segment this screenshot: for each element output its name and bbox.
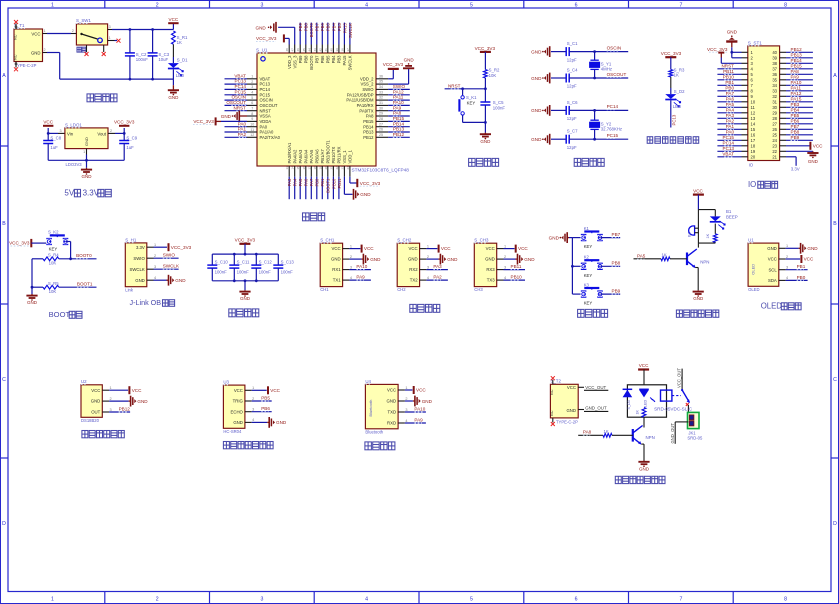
svg-text:OLED: OLED (748, 287, 759, 292)
svg-text:4: 4 (405, 419, 407, 423)
svg-text:PB10/TX: PB10/TX (331, 147, 336, 164)
svg-text:PA9: PA9 (791, 74, 800, 79)
svg-text:PB1/A7: PB1/A7 (320, 149, 325, 164)
svg-text:PB15: PB15 (393, 116, 405, 121)
svg-text:PA1/A0: PA1/A0 (260, 130, 275, 135)
svg-text:1K: 1K (674, 73, 679, 78)
svg-text:PA0: PA0 (260, 124, 268, 129)
svg-text:GND: GND (360, 192, 371, 197)
svg-text:1: 1 (83, 150, 85, 154)
svg-text:Vout: Vout (97, 132, 106, 137)
svg-text:GND: GND (767, 246, 777, 251)
svg-text:PB0: PB0 (725, 85, 734, 90)
svg-text:5: 5 (470, 2, 473, 8)
svg-text:PC13: PC13 (672, 114, 677, 125)
svg-text:13: 13 (285, 166, 289, 170)
svg-text:36: 36 (772, 72, 777, 77)
svg-text:Vin: Vin (67, 132, 74, 137)
svg-text:PB5: PB5 (261, 395, 270, 400)
svg-text:33: 33 (379, 90, 383, 94)
svg-text:K1: K1 (584, 226, 590, 231)
svg-text:43: 43 (313, 48, 317, 52)
svg-text:PA5/A3: PA5/A3 (298, 149, 303, 164)
svg-text:PB7: PB7 (314, 55, 319, 64)
svg-text:GND: GND (531, 108, 542, 113)
svg-text:PA4/A2: PA4/A2 (292, 149, 297, 164)
svg-text:10K: 10K (49, 289, 57, 294)
svg-text:PA4: PA4 (726, 107, 735, 112)
svg-text:38: 38 (772, 61, 777, 66)
svg-text:7: 7 (251, 107, 253, 111)
svg-text:PA8: PA8 (366, 114, 374, 119)
svg-text:PB1: PB1 (797, 264, 806, 269)
svg-text:B1: B1 (726, 209, 732, 214)
svg-text:PA11/USB/DM: PA11/USB/DM (346, 98, 374, 103)
svg-text:S_CH2: S_CH2 (397, 238, 412, 243)
svg-text:S_D1: S_D1 (177, 58, 188, 63)
svg-text:GND: GND (447, 257, 458, 262)
svg-text:18: 18 (751, 143, 756, 148)
svg-text:VCC: VCC (91, 388, 100, 393)
svg-text:S_LDO1: S_LDO1 (65, 122, 82, 127)
svg-text:S_D2: S_D2 (674, 89, 685, 94)
svg-text:PA9/TX: PA9/TX (359, 108, 373, 113)
svg-text:3: 3 (109, 25, 111, 29)
svg-text:VCC: VCC (486, 246, 495, 251)
svg-text:SWCLK: SWCLK (163, 264, 180, 269)
svg-text:7: 7 (679, 597, 682, 603)
svg-text:1K: 1K (662, 253, 667, 258)
svg-text:PB3: PB3 (337, 55, 342, 64)
svg-text:PA10: PA10 (393, 100, 404, 105)
svg-text:41: 41 (324, 48, 328, 52)
svg-text:PB3: PB3 (337, 23, 342, 32)
svg-text:4: 4 (427, 276, 429, 280)
svg-text:VCC: VCC (768, 257, 777, 262)
svg-text:S_K2: S_K2 (48, 230, 59, 235)
svg-text:100nF: 100nF (215, 269, 228, 274)
svg-text:SWIO: SWIO (362, 87, 374, 92)
svg-text:3: 3 (350, 265, 352, 269)
svg-text:SWIO: SWIO (133, 256, 145, 261)
svg-text:3: 3 (251, 85, 253, 89)
svg-text:GND: GND (91, 399, 101, 404)
svg-text:PA10/RX: PA10/RX (357, 103, 374, 108)
svg-text:BOOT1: BOOT1 (77, 282, 93, 287)
svg-text:VCC: VCC (332, 246, 341, 251)
svg-text:GND: GND (485, 257, 495, 262)
svg-text:29: 29 (772, 110, 777, 115)
svg-text:C: C (2, 377, 6, 383)
svg-text:1K: 1K (604, 429, 609, 434)
svg-text:PB9: PB9 (612, 289, 621, 294)
svg-text:1: 1 (251, 75, 253, 79)
svg-text:1uF: 1uF (50, 145, 58, 150)
svg-text:S_H1: S_H1 (125, 237, 137, 242)
svg-text:VBAT: VBAT (722, 151, 734, 156)
svg-text:B: B (833, 221, 837, 227)
svg-text:Bluetooth: Bluetooth (365, 429, 383, 434)
svg-text:RX3: RX3 (486, 267, 495, 272)
svg-text:6: 6 (251, 101, 253, 105)
svg-text:PC14: PC14 (723, 140, 735, 145)
svg-text:PB1: PB1 (725, 80, 734, 85)
svg-text:PB10: PB10 (331, 178, 336, 189)
svg-text:PA15: PA15 (342, 23, 347, 34)
svg-text:VCC_3V3: VCC_3V3 (360, 181, 381, 186)
svg-text:28: 28 (772, 116, 777, 121)
svg-text:SWCLK: SWCLK (348, 23, 353, 38)
svg-text:16: 16 (751, 132, 756, 137)
svg-text:2: 2 (156, 597, 159, 603)
svg-text:PA6: PA6 (726, 96, 735, 101)
svg-text:GND: GND (240, 296, 251, 301)
svg-text:GND: GND (422, 399, 433, 404)
svg-text:3.3V: 3.3V (83, 189, 100, 198)
svg-text:K2: K2 (584, 255, 590, 260)
svg-text:PA7: PA7 (726, 91, 735, 96)
svg-text:PA12: PA12 (393, 89, 404, 94)
svg-text:PB11: PB11 (511, 264, 522, 269)
svg-text:PC13: PC13 (260, 82, 271, 87)
svg-text:GND: GND (276, 420, 287, 425)
svg-text:TX2: TX2 (410, 278, 418, 283)
svg-text:KEY: KEY (584, 244, 593, 249)
svg-text:100nF: 100nF (493, 105, 506, 110)
svg-text:VBAT: VBAT (234, 73, 246, 78)
svg-text:GND: GND (480, 139, 491, 144)
svg-text:6: 6 (575, 2, 578, 8)
svg-text:PA10: PA10 (414, 406, 425, 411)
svg-text:OLED: OLED (751, 264, 756, 275)
svg-text:OSCOUT: OSCOUT (226, 100, 246, 105)
svg-text:1: 1 (427, 244, 429, 248)
svg-text:PA2: PA2 (726, 118, 735, 123)
svg-text:RX2: RX2 (409, 267, 418, 272)
svg-text:VSSA: VSSA (260, 114, 271, 119)
svg-text:VSS_1: VSS_1 (342, 150, 347, 164)
svg-text:NRST: NRST (721, 63, 734, 68)
svg-text:GND: GND (404, 58, 415, 63)
svg-text:27: 27 (379, 122, 383, 126)
svg-text:22: 22 (772, 149, 777, 154)
svg-text:S_C4: S_C4 (567, 67, 578, 72)
svg-text:PA10: PA10 (791, 80, 802, 85)
svg-text:BOOT0: BOOT0 (309, 23, 314, 38)
svg-text:GND: GND (549, 235, 560, 240)
svg-text:29: 29 (379, 112, 383, 116)
svg-text:PB9: PB9 (298, 23, 303, 32)
svg-text:12: 12 (751, 110, 756, 115)
svg-text:GND: GND (693, 296, 704, 301)
svg-text:PB5: PB5 (326, 23, 331, 32)
svg-text:18: 18 (313, 166, 317, 170)
svg-text:S_C6: S_C6 (567, 100, 578, 105)
svg-text:7: 7 (679, 2, 682, 8)
svg-text:17: 17 (751, 138, 756, 143)
svg-text:14: 14 (291, 166, 295, 170)
svg-text:PB11: PB11 (723, 69, 734, 74)
svg-text:8: 8 (784, 597, 787, 603)
svg-text:20: 20 (324, 166, 328, 170)
svg-text:OLED: OLED (761, 302, 783, 311)
svg-text:VCC: VCC (813, 143, 823, 148)
svg-text:PA0: PA0 (726, 129, 735, 134)
svg-text:44: 44 (307, 48, 311, 52)
svg-text:VCC: VCC (518, 246, 528, 251)
svg-text:GND: GND (531, 76, 542, 81)
svg-text:16: 16 (302, 166, 306, 170)
svg-text:PB10: PB10 (511, 275, 523, 280)
svg-text:PA9: PA9 (356, 275, 365, 280)
svg-text:S_ST1: S_ST1 (748, 40, 762, 45)
svg-text:4MHz: 4MHz (601, 67, 612, 72)
svg-text:46: 46 (296, 48, 300, 52)
svg-text:21: 21 (772, 154, 777, 159)
svg-text:PA6/A4: PA6/A4 (303, 149, 308, 164)
svg-text:S_C8: S_C8 (50, 135, 61, 140)
svg-text:4: 4 (154, 276, 156, 280)
svg-text:BOOT: BOOT (49, 310, 71, 319)
svg-text:PB12: PB12 (363, 135, 374, 140)
svg-text:PB5: PB5 (791, 113, 800, 118)
svg-text:5V: 5V (64, 189, 74, 198)
svg-text:11: 11 (250, 128, 254, 132)
svg-text:D: D (2, 521, 6, 527)
svg-text:PA6: PA6 (304, 178, 309, 186)
svg-text:S_C11: S_C11 (237, 260, 250, 265)
svg-text:K3: K3 (584, 283, 590, 288)
svg-text:PA8: PA8 (583, 430, 592, 435)
svg-text:2: 2 (72, 29, 74, 33)
svg-text:VCC: VCC (43, 120, 53, 125)
svg-text:NRST: NRST (233, 105, 246, 110)
svg-text:STM32F103C8T6_LQFP48: STM32F103C8T6_LQFP48 (352, 168, 410, 173)
svg-text:2: 2 (786, 255, 788, 259)
svg-text:PB15: PB15 (791, 63, 803, 68)
svg-text:VCC: VCC (169, 17, 179, 22)
svg-text:1uF: 1uF (126, 145, 134, 150)
svg-text:24: 24 (346, 166, 350, 170)
svg-text:VCC: VCC (270, 388, 280, 393)
svg-text:GND: GND (27, 300, 38, 305)
svg-text:NC: NC (550, 389, 554, 395)
svg-text:2: 2 (43, 48, 45, 52)
svg-text:TX3: TX3 (487, 278, 495, 283)
svg-text:32: 32 (772, 94, 777, 99)
svg-text:NRST: NRST (448, 83, 461, 88)
svg-text:4: 4 (252, 418, 254, 422)
svg-text:VCC: VCC (234, 388, 243, 393)
svg-text:2: 2 (110, 129, 112, 133)
svg-text:VCC_3V3: VCC_3V3 (475, 46, 496, 51)
svg-text:PB11/RX: PB11/RX (337, 146, 342, 163)
svg-text:PA15: PA15 (791, 96, 802, 101)
svg-text:1K: 1K (706, 233, 710, 238)
svg-text:12pF: 12pF (567, 116, 577, 121)
svg-text:PB4: PB4 (331, 23, 336, 32)
svg-text:2: 2 (427, 255, 429, 259)
svg-text:PC13: PC13 (723, 146, 735, 151)
svg-text:8: 8 (251, 112, 253, 116)
svg-text:3: 3 (786, 266, 788, 270)
svg-text:TYPE-C-2P: TYPE-C-2P (556, 419, 578, 424)
svg-text:12pF: 12pF (567, 145, 577, 150)
svg-text:KEY: KEY (584, 273, 593, 278)
svg-text:1: 1 (504, 244, 506, 248)
svg-text:PC14: PC14 (235, 84, 247, 89)
svg-text:VCC_3V3: VCC_3V3 (383, 62, 404, 67)
svg-text:39: 39 (335, 48, 339, 52)
svg-text:1: 1 (154, 243, 156, 247)
svg-text:VSS_3: VSS_3 (292, 55, 297, 69)
svg-text:30: 30 (379, 106, 383, 110)
svg-text:37: 37 (346, 48, 350, 52)
svg-text:TRIG: TRIG (233, 399, 244, 404)
svg-text:47: 47 (291, 48, 295, 52)
svg-text:26: 26 (772, 127, 777, 132)
svg-text:VDD_2: VDD_2 (360, 76, 374, 81)
svg-text:4: 4 (786, 276, 788, 280)
svg-text:37: 37 (772, 66, 777, 71)
svg-text:48: 48 (285, 48, 289, 52)
svg-text:2: 2 (504, 255, 506, 259)
svg-text:NPN: NPN (700, 260, 709, 265)
svg-text:10: 10 (250, 123, 254, 127)
svg-text:PC13: PC13 (235, 79, 247, 84)
svg-text:PA2: PA2 (433, 275, 442, 280)
svg-text:GND_OUT: GND_OUT (670, 423, 675, 444)
svg-text:VBAT: VBAT (260, 76, 271, 81)
svg-text:3: 3 (260, 597, 263, 603)
svg-text:PA3: PA3 (433, 264, 442, 269)
svg-text:3: 3 (260, 2, 263, 8)
svg-text:PB8: PB8 (304, 23, 309, 32)
svg-text:PC15: PC15 (235, 89, 247, 94)
svg-text:4: 4 (365, 597, 368, 603)
svg-text:1K: 1K (177, 40, 182, 45)
svg-text:15: 15 (751, 127, 756, 132)
svg-text:S_R4: S_R4 (48, 252, 59, 257)
svg-text:S_D3: S_D3 (627, 400, 631, 409)
svg-text:S_C9: S_C9 (126, 135, 137, 140)
svg-text:PA0: PA0 (238, 121, 247, 126)
svg-text:PB13: PB13 (791, 52, 803, 57)
svg-text:26: 26 (379, 128, 383, 132)
svg-text:Bluetooth: Bluetooth (368, 400, 373, 417)
svg-text:VDD_3: VDD_3 (287, 55, 292, 69)
svg-text:21: 21 (329, 166, 333, 170)
svg-text:SWIO: SWIO (163, 253, 176, 258)
svg-text:VCC: VCC (441, 246, 451, 251)
svg-text:VCC: VCC (693, 188, 703, 193)
svg-text:PB14: PB14 (791, 58, 803, 63)
svg-text:CH3: CH3 (474, 287, 483, 292)
svg-text:PB6: PB6 (261, 406, 270, 411)
svg-text:VCC_3V3: VCC_3V3 (707, 47, 728, 52)
svg-text:SWIO: SWIO (393, 84, 406, 89)
svg-text:PA5: PA5 (637, 254, 646, 259)
svg-text:SWCLK: SWCLK (348, 55, 353, 70)
svg-text:27: 27 (772, 121, 777, 126)
svg-text:3: 3 (252, 408, 254, 412)
svg-text:12: 12 (250, 133, 254, 137)
svg-text:VCC: VCC (567, 385, 576, 390)
svg-text:35: 35 (772, 77, 777, 82)
svg-text:HC-SR04: HC-SR04 (223, 429, 242, 434)
svg-text:VCC: VCC (416, 388, 426, 393)
svg-text:GND: GND (135, 278, 145, 283)
svg-text:A: A (2, 73, 6, 79)
svg-text:VCC: VCC (132, 388, 142, 393)
svg-text:2: 2 (251, 80, 253, 84)
svg-text:U2: U2 (81, 379, 87, 384)
svg-text:12pF: 12pF (567, 84, 577, 89)
svg-text:S_U1: S_U1 (256, 48, 268, 53)
svg-text:VCC: VCC (31, 31, 40, 36)
svg-text:6: 6 (575, 597, 578, 603)
svg-text:GND: GND (221, 114, 232, 119)
svg-text:28: 28 (379, 117, 383, 121)
svg-text:B: B (2, 221, 6, 227)
svg-text:KEY: KEY (467, 100, 476, 105)
svg-text:NRST: NRST (260, 108, 272, 113)
svg-text:15: 15 (296, 166, 300, 170)
svg-text:PA2/TX/A0: PA2/TX/A0 (260, 135, 281, 140)
svg-text:TXD: TXD (387, 410, 396, 415)
svg-text:PA9: PA9 (414, 417, 423, 422)
svg-text:PB14: PB14 (363, 124, 374, 129)
svg-text:1: 1 (43, 29, 45, 33)
svg-text:PB1: PB1 (320, 178, 325, 187)
svg-text:PA1: PA1 (238, 127, 247, 132)
svg-text:45: 45 (302, 48, 306, 52)
svg-text:PB11: PB11 (337, 178, 342, 189)
svg-text:GND: GND (256, 26, 267, 31)
svg-text:VCC: VCC (387, 388, 396, 393)
svg-text:17: 17 (307, 166, 311, 170)
svg-text:VCC_3V3: VCC_3V3 (9, 241, 30, 246)
svg-text:PB0/A6: PB0/A6 (314, 149, 319, 164)
svg-text:VCC: VCC (409, 246, 418, 251)
svg-text:VCC: VCC (804, 257, 814, 262)
svg-text:PA8: PA8 (791, 69, 800, 74)
svg-text:BOOT0: BOOT0 (309, 55, 314, 70)
svg-text:100nF: 100nF (136, 57, 149, 62)
svg-text:RXD: RXD (387, 421, 396, 426)
svg-text:20: 20 (751, 154, 756, 159)
svg-text:U4: U4 (365, 379, 371, 384)
svg-text:25: 25 (772, 132, 777, 137)
svg-text:GND: GND (566, 408, 576, 413)
svg-text:36: 36 (379, 74, 383, 78)
svg-text:PC15: PC15 (260, 92, 271, 97)
svg-text:1: 1 (51, 2, 54, 8)
svg-text:RX1: RX1 (332, 267, 341, 272)
svg-text:GND: GND (175, 278, 186, 283)
svg-text:S_CH3: S_CH3 (474, 238, 489, 243)
svg-text:CH2: CH2 (397, 287, 406, 292)
svg-text:10K: 10K (49, 261, 57, 266)
svg-text:100nF: 100nF (237, 269, 250, 274)
svg-text:PA10: PA10 (356, 264, 367, 269)
svg-text:1: 1 (252, 386, 254, 390)
svg-text:PB7: PB7 (791, 124, 800, 129)
svg-text:PB15: PB15 (363, 119, 374, 124)
svg-text:S_R5: S_R5 (48, 281, 59, 286)
svg-text:34: 34 (379, 85, 383, 89)
svg-text:2: 2 (350, 255, 352, 259)
